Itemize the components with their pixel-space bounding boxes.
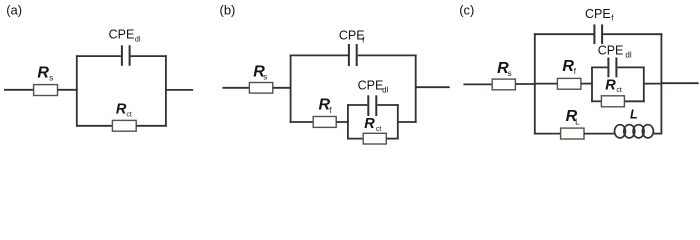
svg-text:s: s: [263, 72, 267, 81]
wire Rs to node (c): [515, 83, 535, 85]
wire top left (a): [76, 55, 121, 57]
wire inner left vertical (b): [347, 104, 349, 139]
wire right vertical (c): [660, 33, 662, 134]
wire Rf to inner loop (c): [581, 83, 593, 85]
wire Rs to node (b): [273, 87, 292, 89]
capacitor CPE_f plate 2 (b): [356, 44, 358, 66]
capacitor CPE_dl plate 1 (b): [367, 95, 369, 116]
capacitor CPE_dl plate 2 (a): [129, 45, 131, 66]
wire top right (b): [358, 54, 417, 56]
svg-text:CPE: CPE: [109, 27, 135, 41]
resistor R_ct (c): [601, 96, 624, 107]
wire left vertical (b): [290, 55, 292, 123]
wire right vertical (a): [165, 55, 167, 127]
capacitor CPE_dl plate 1 (c): [607, 58, 609, 78]
svg-text:CPE: CPE: [358, 78, 384, 92]
wire inner bottom right (c): [624, 100, 644, 102]
wire input (b): [222, 87, 249, 89]
wire top right (c): [603, 33, 662, 35]
svg-text:dl: dl: [382, 86, 388, 95]
svg-text:ct: ct: [126, 112, 131, 119]
svg-text:(c): (c): [459, 3, 474, 18]
svg-text:R: R: [37, 64, 49, 81]
svg-text:CPE: CPE: [598, 44, 624, 58]
wire inner bottom left (b): [347, 138, 363, 140]
resistor R_s (c): [492, 79, 515, 90]
wire middle branch left (c): [534, 83, 558, 85]
svg-text:ct: ct: [376, 126, 382, 133]
wire right vertical (b): [415, 55, 417, 123]
resistor R_ct (a): [112, 120, 136, 131]
svg-text:R: R: [562, 58, 574, 75]
wire bottom branch left (b): [290, 121, 314, 123]
inductor L coil 4 (c): [642, 125, 653, 138]
wire inner loop to right vertical (c): [644, 83, 663, 85]
svg-text:L: L: [630, 108, 638, 122]
resistor R_L (c): [561, 128, 584, 139]
wire top left (c): [534, 33, 594, 35]
svg-text:L: L: [575, 118, 580, 127]
resistor R_s (a): [34, 85, 58, 96]
svg-text:s: s: [49, 73, 53, 82]
wire Rs to node (a): [58, 89, 78, 91]
wire bottom right (a): [136, 125, 167, 127]
wire inner bottom right (b): [386, 138, 398, 140]
svg-text:R: R: [364, 116, 375, 132]
svg-text:R: R: [116, 102, 127, 118]
wire left vertical (c): [534, 33, 536, 134]
wire bottom left (a): [76, 125, 113, 127]
svg-text:R: R: [605, 78, 616, 94]
wire bottom branch left (c): [534, 133, 561, 135]
wire top right (a): [131, 55, 167, 57]
capacitor CPE_dl plate 2 (c): [615, 58, 617, 78]
resistor R_f (c): [557, 78, 581, 89]
svg-text:CPE: CPE: [339, 28, 365, 42]
capacitor CPE_dl plate 1 (a): [121, 45, 123, 66]
wire input (a): [4, 89, 34, 91]
inductor L coil 1 (c): [615, 125, 626, 138]
svg-text:dl: dl: [135, 37, 141, 44]
wire inner top left (b): [347, 104, 367, 106]
wire Rf to inner loop (b): [336, 121, 349, 123]
wire inner top right (c): [617, 66, 644, 68]
resistor R_ct (b): [363, 133, 386, 144]
wire inner left vertical (c): [591, 67, 593, 103]
wire inner bottom left (c): [591, 100, 601, 102]
wire input (c): [463, 83, 492, 85]
wire inner right vertical (b): [397, 104, 399, 139]
resistor R_f (b): [313, 117, 336, 128]
capacitor CPE_f plate 1 (b): [348, 44, 350, 66]
wire inner right vertical (c): [643, 67, 645, 103]
svg-text:ct: ct: [616, 87, 622, 94]
wire output (a): [166, 89, 193, 91]
wire inductor to right vertical (c): [653, 133, 662, 135]
resistor R_s (b): [249, 83, 272, 94]
wire RL to inductor (c): [584, 133, 615, 135]
wire inner top right (b): [377, 104, 398, 106]
svg-text:CPE: CPE: [585, 7, 611, 21]
wire top left (b): [290, 54, 348, 56]
capacitor CPE_f plate 1 (c): [593, 24, 595, 44]
inductor L coil 2 (c): [624, 125, 635, 138]
capacitor CPE_f plate 2 (c): [601, 24, 603, 44]
svg-text:(b): (b): [220, 3, 236, 18]
wire inner top left (c): [591, 66, 607, 68]
capacitor CPE_dl plate 2 (b): [375, 95, 377, 116]
wire output (b): [416, 86, 450, 88]
wire left vertical (a): [76, 55, 78, 127]
wire output (c): [661, 82, 698, 84]
svg-text:dl: dl: [625, 51, 631, 60]
svg-text:(a): (a): [6, 3, 22, 18]
svg-text:s: s: [508, 69, 512, 78]
inductor L coil 3 (c): [633, 125, 644, 138]
wire inner loop to right vertical (b): [398, 121, 417, 123]
